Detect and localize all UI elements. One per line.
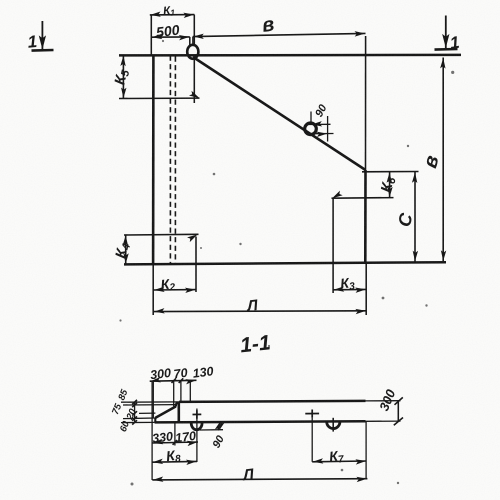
dimension K5 — [111, 55, 132, 98]
ladder tick 4 — [132, 416, 137, 420]
slab bottom edge — [124, 262, 446, 264]
extension line x196 — [195, 237, 197, 293]
section top edge extension right — [366, 400, 401, 402]
ext x366 vertical — [365, 422, 367, 479]
left small dims extension y413.2 — [139, 412, 155, 414]
slab right edge — [364, 170, 367, 262]
reference line y197.8 with arrow — [331, 191, 394, 201]
dimension K1 — [150, 4, 195, 55]
dimension B vertical right — [419, 58, 446, 262]
extension x153.5 down — [152, 264, 154, 315]
dimension C — [394, 172, 418, 262]
hidden rib dashed line b — [174, 57, 176, 265]
section left edge — [154, 418, 156, 423]
dimension K3 — [333, 274, 366, 294]
section marker 1 top-left — [27, 21, 54, 52]
plus mark left — [193, 410, 202, 419]
extension x366 down — [365, 262, 367, 315]
dims 330 170 — [152, 439, 198, 446]
plus mark right — [305, 410, 319, 418]
dims 300 70 130 line — [150, 377, 197, 384]
reference line y234 with arrow — [124, 232, 199, 242]
section bottom extension left — [121, 421, 155, 423]
section left end step — [176, 403, 180, 407]
dimension K6 — [362, 172, 419, 198]
dim 300 right end — [376, 387, 403, 426]
dimension K7 — [312, 447, 366, 467]
left small dims extension y401.8 — [121, 401, 179, 403]
section left end slope — [155, 406, 176, 418]
extension x333 for K3 — [332, 198, 334, 293]
ladder tick 1 — [132, 400, 137, 404]
left small dims extension y404.8 — [123, 404, 176, 406]
ext x152 vertical — [151, 381, 153, 480]
dimension L plan — [154, 297, 367, 315]
ladder tick 3 — [132, 411, 137, 415]
section left end rib vertical — [178, 402, 181, 422]
section bottom edge — [155, 421, 366, 422]
dim 90 under loop1 — [200, 421, 228, 450]
section top edge — [179, 401, 366, 402]
loop1 axis extension — [196, 409, 198, 463]
slab top edge — [119, 54, 461, 57]
section marker 1 top-right — [435, 16, 461, 53]
slab left edge — [152, 55, 155, 264]
right edge extension up — [365, 36, 367, 170]
loop axis line down from circle — [193, 58, 195, 103]
dimension K8 — [152, 446, 197, 466]
loop on diagonal — [305, 123, 317, 135]
reference line y98 with arrow — [119, 91, 201, 101]
hidden rib dashed line a — [169, 56, 171, 265]
left small dims ladder line — [134, 402, 136, 423]
dimension K4 — [112, 235, 133, 264]
slab corner diagonal — [193, 57, 366, 170]
lifting loop section right — [327, 422, 340, 429]
ext vertical x312 — [311, 418, 313, 462]
dimension L section — [152, 466, 367, 484]
dimension 500 — [151, 22, 190, 46]
dimension K2 — [154, 275, 197, 295]
lifting loop plan circle — [187, 45, 198, 59]
scan specks — [119, 40, 454, 486]
left small dims extension y418.3 — [123, 417, 155, 420]
ladder tick 2 — [132, 403, 137, 407]
section bottom extension right — [366, 420, 401, 422]
lifting loop section left — [191, 422, 202, 430]
loop2 axis line — [332, 418, 334, 432]
ext verticals of 300/70/130 — [152, 381, 154, 418]
paper scan noise — [0, 0, 1, 1]
dimension B horizontal top — [193, 13, 366, 44]
ladder tick 5 — [132, 420, 137, 424]
dimension 90 on diagonal — [306, 102, 334, 142]
